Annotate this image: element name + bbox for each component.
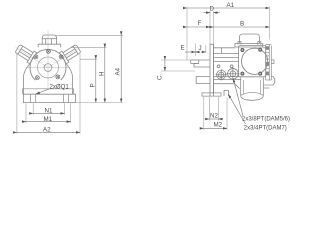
top plug hex: [38, 35, 61, 47]
J tick: [205, 46, 207, 53]
bottom boss bolt: [224, 91, 229, 97]
svg-text:2xØQ1: 2xØQ1: [50, 84, 70, 91]
block horizontal lines: [214, 52, 240, 54]
dim F: [187, 26, 210, 28]
cover nub: [271, 60, 274, 64]
port circle small left: [216, 69, 227, 80]
bolt B1 top: [46, 49, 50, 53]
dim A2 extension lines: [17, 54, 80, 134]
dim A1: [187, 7, 270, 9]
leader 2: [228, 94, 245, 124]
plate bolt 1: [241, 49, 244, 52]
dim H: [104, 48, 106, 103]
block outline: [214, 44, 270, 93]
dim D extensions: [210, 11, 214, 44]
dim P extension top: [80, 58, 97, 60]
svg-text:E: E: [181, 45, 185, 52]
cap flange: [235, 44, 263, 48]
svg-text:D: D: [210, 6, 215, 13]
small hole 1: [217, 65, 220, 68]
bracket upper foot: [191, 60, 210, 67]
right cover ladder strip: [266, 45, 272, 81]
bottom cylinder: [241, 78, 264, 101]
svg-text:C: C: [157, 75, 164, 80]
centerline vertical: [47, 31, 49, 89]
base plate: [23, 94, 75, 102]
dim A4 extension top: [57, 34, 123, 36]
bolt B5 lower-right: [56, 75, 60, 79]
bore circle: [44, 64, 52, 72]
dim H extension top: [71, 47, 106, 49]
E/J extension line: [194, 44, 196, 57]
plate bolt 4: [259, 72, 262, 75]
dim C bottom extension: [161, 70, 195, 72]
A1 left extension: [186, 7, 188, 61]
leader to slot: [36, 89, 50, 94]
bottom flange: [202, 93, 221, 96]
dim P: [95, 59, 97, 102]
svg-text:P: P: [89, 83, 96, 87]
svg-text:M2: M2: [214, 122, 223, 129]
dim C: [164, 60, 166, 71]
dim N1 extension lines: [33, 103, 64, 115]
block top-left step: [221, 48, 223, 54]
base slot left: [31, 94, 36, 102]
dim B: [214, 26, 270, 28]
dim M1 extension lines: [26, 103, 71, 123]
svg-text:B: B: [240, 20, 244, 27]
A1/B right extension: [269, 7, 271, 40]
dim D: [204, 12, 221, 14]
bolt B2 upper-left: [34, 55, 38, 59]
left plug flange: [27, 51, 36, 64]
bracket plate: [210, 44, 214, 96]
body circle (partial arc, bottom hidden by pedestal): [30, 49, 66, 80]
pedestal shoulder line: [23, 89, 74, 94]
centerline horizontal: [26, 67, 70, 69]
pedestal left side: [23, 64, 29, 94]
leader 1: [233, 79, 243, 117]
port circle small right: [226, 67, 239, 80]
svg-text:A2: A2: [43, 126, 51, 133]
plate bolt 3: [241, 72, 244, 75]
centerline left plug axis: [16, 47, 49, 67]
svg-text:N2: N2: [210, 112, 218, 119]
base slot right: [64, 94, 69, 102]
dim A4: [120, 35, 122, 102]
plate bolt 2: [259, 48, 262, 51]
right hex nut: [271, 77, 275, 86]
bracket lower foot: [196, 77, 210, 84]
right plug flange: [59, 51, 68, 64]
dim C top extension: [161, 59, 191, 61]
small hole 2: [230, 65, 233, 68]
svg-text:A1: A1: [227, 2, 235, 9]
svg-text:N1: N1: [45, 108, 53, 115]
bolt B4 lower-left: [35, 76, 39, 80]
svg-text:H: H: [98, 72, 105, 76]
port face plate: [239, 46, 266, 77]
dim J arrows: [195, 51, 205, 53]
dim N2: [205, 118, 223, 120]
left plug hex: [14, 43, 37, 64]
base bottom extension right: [76, 102, 123, 104]
block top edge: [214, 47, 236, 49]
centerline right plug axis: [48, 47, 81, 67]
svg-text:2x3/8PT(DAM5/6): 2x3/8PT(DAM5/6): [242, 117, 290, 123]
svg-text:F: F: [198, 20, 202, 27]
svg-text:J: J: [199, 45, 202, 52]
bolt B3 upper-right: [59, 55, 63, 59]
dim M2 extensions: [204, 97, 227, 130]
boss circle: [38, 57, 59, 78]
dim N1: [33, 112, 64, 114]
pedestal right side: [66, 64, 72, 94]
cover dark cells: [266, 46, 269, 49]
right plug hex: [59, 43, 82, 64]
svg-text:A4: A4: [115, 67, 122, 75]
body block: [214, 44, 270, 93]
cap corner nubs: [238, 42, 241, 45]
svg-text:2x3/4PT(DAM7): 2x3/4PT(DAM7): [244, 126, 287, 132]
top cap dome: [235, 34, 263, 47]
svg-text:M1: M1: [44, 116, 53, 123]
dim M1: [26, 121, 71, 123]
dim M2: [204, 127, 227, 129]
dim A2: [17, 131, 80, 133]
top plug flange: [38, 44, 61, 47]
E arrow: [185, 51, 195, 53]
dim N2 extensions: [209, 97, 218, 121]
big port circle: [242, 48, 268, 74]
